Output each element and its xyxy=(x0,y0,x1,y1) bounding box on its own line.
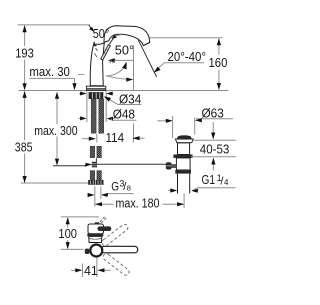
svg-text:100: 100 xyxy=(58,226,77,241)
waste upper body xyxy=(178,143,190,155)
dimension 100 xyxy=(61,216,99,218)
threaded studs xyxy=(91,99,96,133)
center line between studs xyxy=(96,134,98,143)
side view swivel circle xyxy=(90,245,102,257)
svg-text:max. 300: max. 300 xyxy=(34,123,77,138)
shank nut xyxy=(89,92,104,99)
side view aerator nub xyxy=(85,249,90,254)
flexible hoses upper segments xyxy=(90,146,95,158)
swivel arc right arrow xyxy=(106,76,129,80)
side view: dashed lever tip xyxy=(100,216,107,223)
side view solid spout bar xyxy=(101,246,138,253)
bottom reference line 385 level xyxy=(21,182,90,184)
svg-text:max. 30: max. 30 xyxy=(29,64,70,79)
spout outlet face xyxy=(144,42,150,45)
flange extension lines xyxy=(86,92,88,123)
arrow for first 50° xyxy=(89,25,91,28)
lever base blob xyxy=(93,45,97,47)
flexible hoses lower segments xyxy=(90,171,95,181)
dimension 160 vertical line xyxy=(218,39,220,89)
side view head xyxy=(88,224,104,234)
svg-text:114: 114 xyxy=(106,130,125,145)
dimension 41 xyxy=(82,264,84,278)
waste tailpipe xyxy=(177,174,179,194)
side view body xyxy=(89,236,102,242)
faucet elevation: body xyxy=(90,42,104,86)
arrow and chord for second 50° xyxy=(109,38,113,44)
deck line xyxy=(19,90,229,92)
faucet spout xyxy=(104,26,150,46)
top reference line 193 level xyxy=(18,24,90,26)
svg-text:40-53: 40-53 xyxy=(200,141,230,156)
svg-text:G: G xyxy=(111,180,119,194)
svg-text:50°: 50° xyxy=(93,26,110,41)
hose connector nuts G3/8 xyxy=(88,180,95,185)
svg-text:G1: G1 xyxy=(202,172,216,187)
svg-text:160: 160 xyxy=(209,55,228,70)
dimension 40-53 xyxy=(193,139,236,141)
dimension max.300 vertical line xyxy=(56,99,58,159)
small tick left of body xyxy=(78,74,85,76)
svg-text:193: 193 xyxy=(15,46,34,61)
dimension 193 / 385 vertical line xyxy=(24,25,26,182)
side view cartridge band xyxy=(87,234,103,237)
dashed spout bar rotated up xyxy=(101,223,130,247)
dashed spout bar rotated down xyxy=(102,252,131,276)
pop-up waste flange xyxy=(175,139,193,143)
lever shading marks xyxy=(95,48,98,57)
svg-text:4: 4 xyxy=(224,178,229,187)
break marks on swivel arrow xyxy=(110,59,116,64)
swivel arc up arrow xyxy=(106,67,124,76)
svg-text:Ø48: Ø48 xyxy=(113,107,135,122)
swivel extension vertical line xyxy=(133,46,135,91)
base flange xyxy=(86,86,105,90)
waste lower body xyxy=(176,158,190,170)
spout outlet reference line 160 level xyxy=(150,37,223,39)
svg-text:max. 180: max. 180 xyxy=(116,195,160,210)
pop-up rod horizontal xyxy=(53,165,86,167)
svg-text:385: 385 xyxy=(15,140,33,155)
svg-text:50°: 50° xyxy=(115,42,134,57)
flange dimension arrows below deck xyxy=(80,93,85,95)
water stream angle line xyxy=(138,39,157,77)
svg-text:20°-40°: 20°-40° xyxy=(168,49,207,64)
waste seal ring xyxy=(173,155,192,158)
waste lever knob xyxy=(166,162,172,169)
side view lever (solid) xyxy=(98,226,112,231)
dimension max.180 xyxy=(95,203,113,205)
waste thread band xyxy=(175,170,191,174)
svg-text:8: 8 xyxy=(127,183,131,192)
svg-text:41: 41 xyxy=(84,263,98,278)
swivel left arrow xyxy=(110,59,134,61)
faucet lever (elevation) xyxy=(101,45,111,60)
rod joint block xyxy=(95,158,97,162)
G3/8 extension lines xyxy=(94,187,96,207)
